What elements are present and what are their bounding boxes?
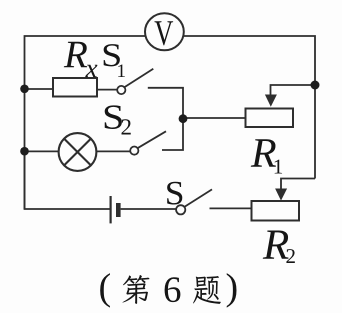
voltmeter V <box>145 13 184 50</box>
label Rx <box>64 42 98 77</box>
wire: battery to switch S <box>121 208 177 210</box>
wiper arrow R2 <box>275 189 287 201</box>
wire: Rx to S1 <box>97 89 117 91</box>
wire: S1 fixed contact to middle branch <box>148 88 183 119</box>
lamp <box>59 133 97 171</box>
wire: switch S fixed contact to R2 <box>210 207 252 209</box>
junction node: S1/S2 branch to R1 <box>179 114 188 123</box>
switch S1 <box>117 69 153 94</box>
wire: left rail to Rx <box>25 88 54 90</box>
wire: middle branch S2 side <box>162 119 183 151</box>
junction node: right rail / R1 wiper <box>311 81 320 90</box>
wire: top-left rail to voltmeter <box>25 36 147 89</box>
rheostat R2 <box>252 201 300 221</box>
right rail wire <box>314 85 316 179</box>
left rail wire <box>24 89 26 209</box>
battery <box>111 196 119 223</box>
label S2 <box>105 105 131 134</box>
resistor Rx <box>53 78 97 97</box>
junction node: left rail / Rx branch <box>20 85 29 94</box>
rheostat R1 <box>246 109 294 128</box>
label S1 <box>104 44 125 77</box>
wire: left rail to lamp <box>25 150 59 152</box>
wire: junction to R1 wiper elbow <box>271 85 316 96</box>
wire: junction to R1 left terminal <box>183 117 246 119</box>
switch S2 <box>130 131 166 154</box>
wire: voltmeter to top-right corner <box>183 36 315 85</box>
wire: bottom-left rail to battery <box>25 151 110 209</box>
label R1 <box>251 139 282 173</box>
junction node: left rail / lamp branch <box>20 147 29 156</box>
wire: lamp to S2 <box>96 150 130 152</box>
caption (第 6 题) <box>100 273 236 307</box>
wiper arrow R1 <box>265 95 277 107</box>
label S <box>167 182 182 205</box>
wire: right rail to R2 wiper elbow <box>281 179 315 190</box>
switch S <box>176 189 212 214</box>
label R2 <box>263 231 295 263</box>
